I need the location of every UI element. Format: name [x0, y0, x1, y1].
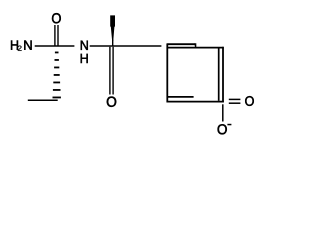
ring top inner line end jog [194, 43, 196, 47]
amide carbonyl O label [52, 13, 61, 23]
nitro minus sign [227, 124, 231, 126]
ring bottom main edge [167, 101, 224, 103]
amide H label [81, 54, 88, 63]
nitro O label right [245, 96, 254, 106]
amide N label [81, 41, 88, 50]
ring left edge [166, 43, 168, 102]
ring right inner line [218, 49, 220, 101]
ring right outer edge [222, 47, 224, 103]
amine label H [11, 41, 18, 50]
ring top inner line [167, 43, 195, 45]
C2=O double bond down [109, 47, 111, 95]
wire: ethyl terminal bond [28, 99, 58, 101]
wire: bond N to C2 to ring [90, 45, 162, 47]
bold wedge methyl up from C2 [110, 15, 115, 41]
wire: nitro N-O single bond down [222, 104, 224, 121]
ring top main edge [167, 47, 224, 49]
ring bottom inner line [168, 96, 194, 98]
hashed wedge down from C1 [53, 52, 61, 99]
wire: bond H2N to C1 [35, 45, 75, 47]
ketone O label [107, 97, 116, 107]
nitro O-minus label [218, 124, 227, 134]
C1=O double bond up [54, 25, 56, 46]
amine label subscript 2 [18, 46, 22, 51]
nitro N=O double bond right [229, 98, 241, 100]
amine label N [24, 41, 31, 50]
